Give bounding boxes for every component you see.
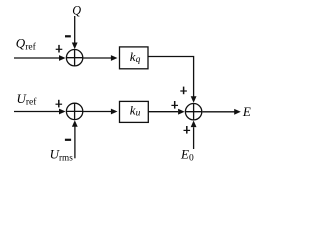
arrowhead E0 into S3 bottom — [191, 121, 197, 128]
arrowhead Qref into S1 — [59, 55, 66, 61]
plus sign S3 top — [180, 90, 187, 92]
arrowhead Uref into S2 — [59, 109, 66, 115]
svg-text:Q: Q — [72, 3, 81, 17]
block ku box — [120, 101, 149, 122]
arrowhead ku wire into S3 left — [178, 109, 185, 115]
arrowhead into ku — [111, 109, 118, 115]
arrowhead output E — [234, 109, 241, 115]
arrowhead kq wire into S3 top — [191, 96, 197, 103]
arrowhead into kq — [111, 55, 118, 61]
summing junction S2 — [66, 103, 82, 119]
wire ku to S3 — [149, 111, 179, 113]
wire Qref input — [14, 57, 60, 59]
wire E0 bottom input — [193, 127, 195, 149]
arrowhead Urms into S2 bottom — [72, 120, 78, 127]
wire kq to S3 (corner) — [148, 57, 193, 97]
plus sign S1 left — [56, 48, 63, 50]
arrowhead Q into S1 top — [72, 43, 78, 50]
block kq box — [120, 47, 149, 69]
wire S2 to ku — [83, 111, 111, 113]
minus sign S1 top — [65, 35, 71, 37]
plus sign S3 bottom — [184, 129, 191, 131]
minus sign S2 bottom — [65, 139, 71, 141]
wire Urms bottom input — [74, 127, 76, 159]
wire Uref input — [14, 111, 60, 113]
wire S1 to kq — [83, 57, 111, 59]
plus sign S3 left — [171, 104, 178, 106]
plus sign S2 left — [56, 103, 63, 105]
summing junction S3 — [185, 104, 201, 120]
wire output E — [203, 111, 235, 113]
svg-text:E: E — [242, 104, 251, 119]
wire Q top input — [74, 16, 76, 43]
summing junction S1 — [66, 50, 82, 66]
